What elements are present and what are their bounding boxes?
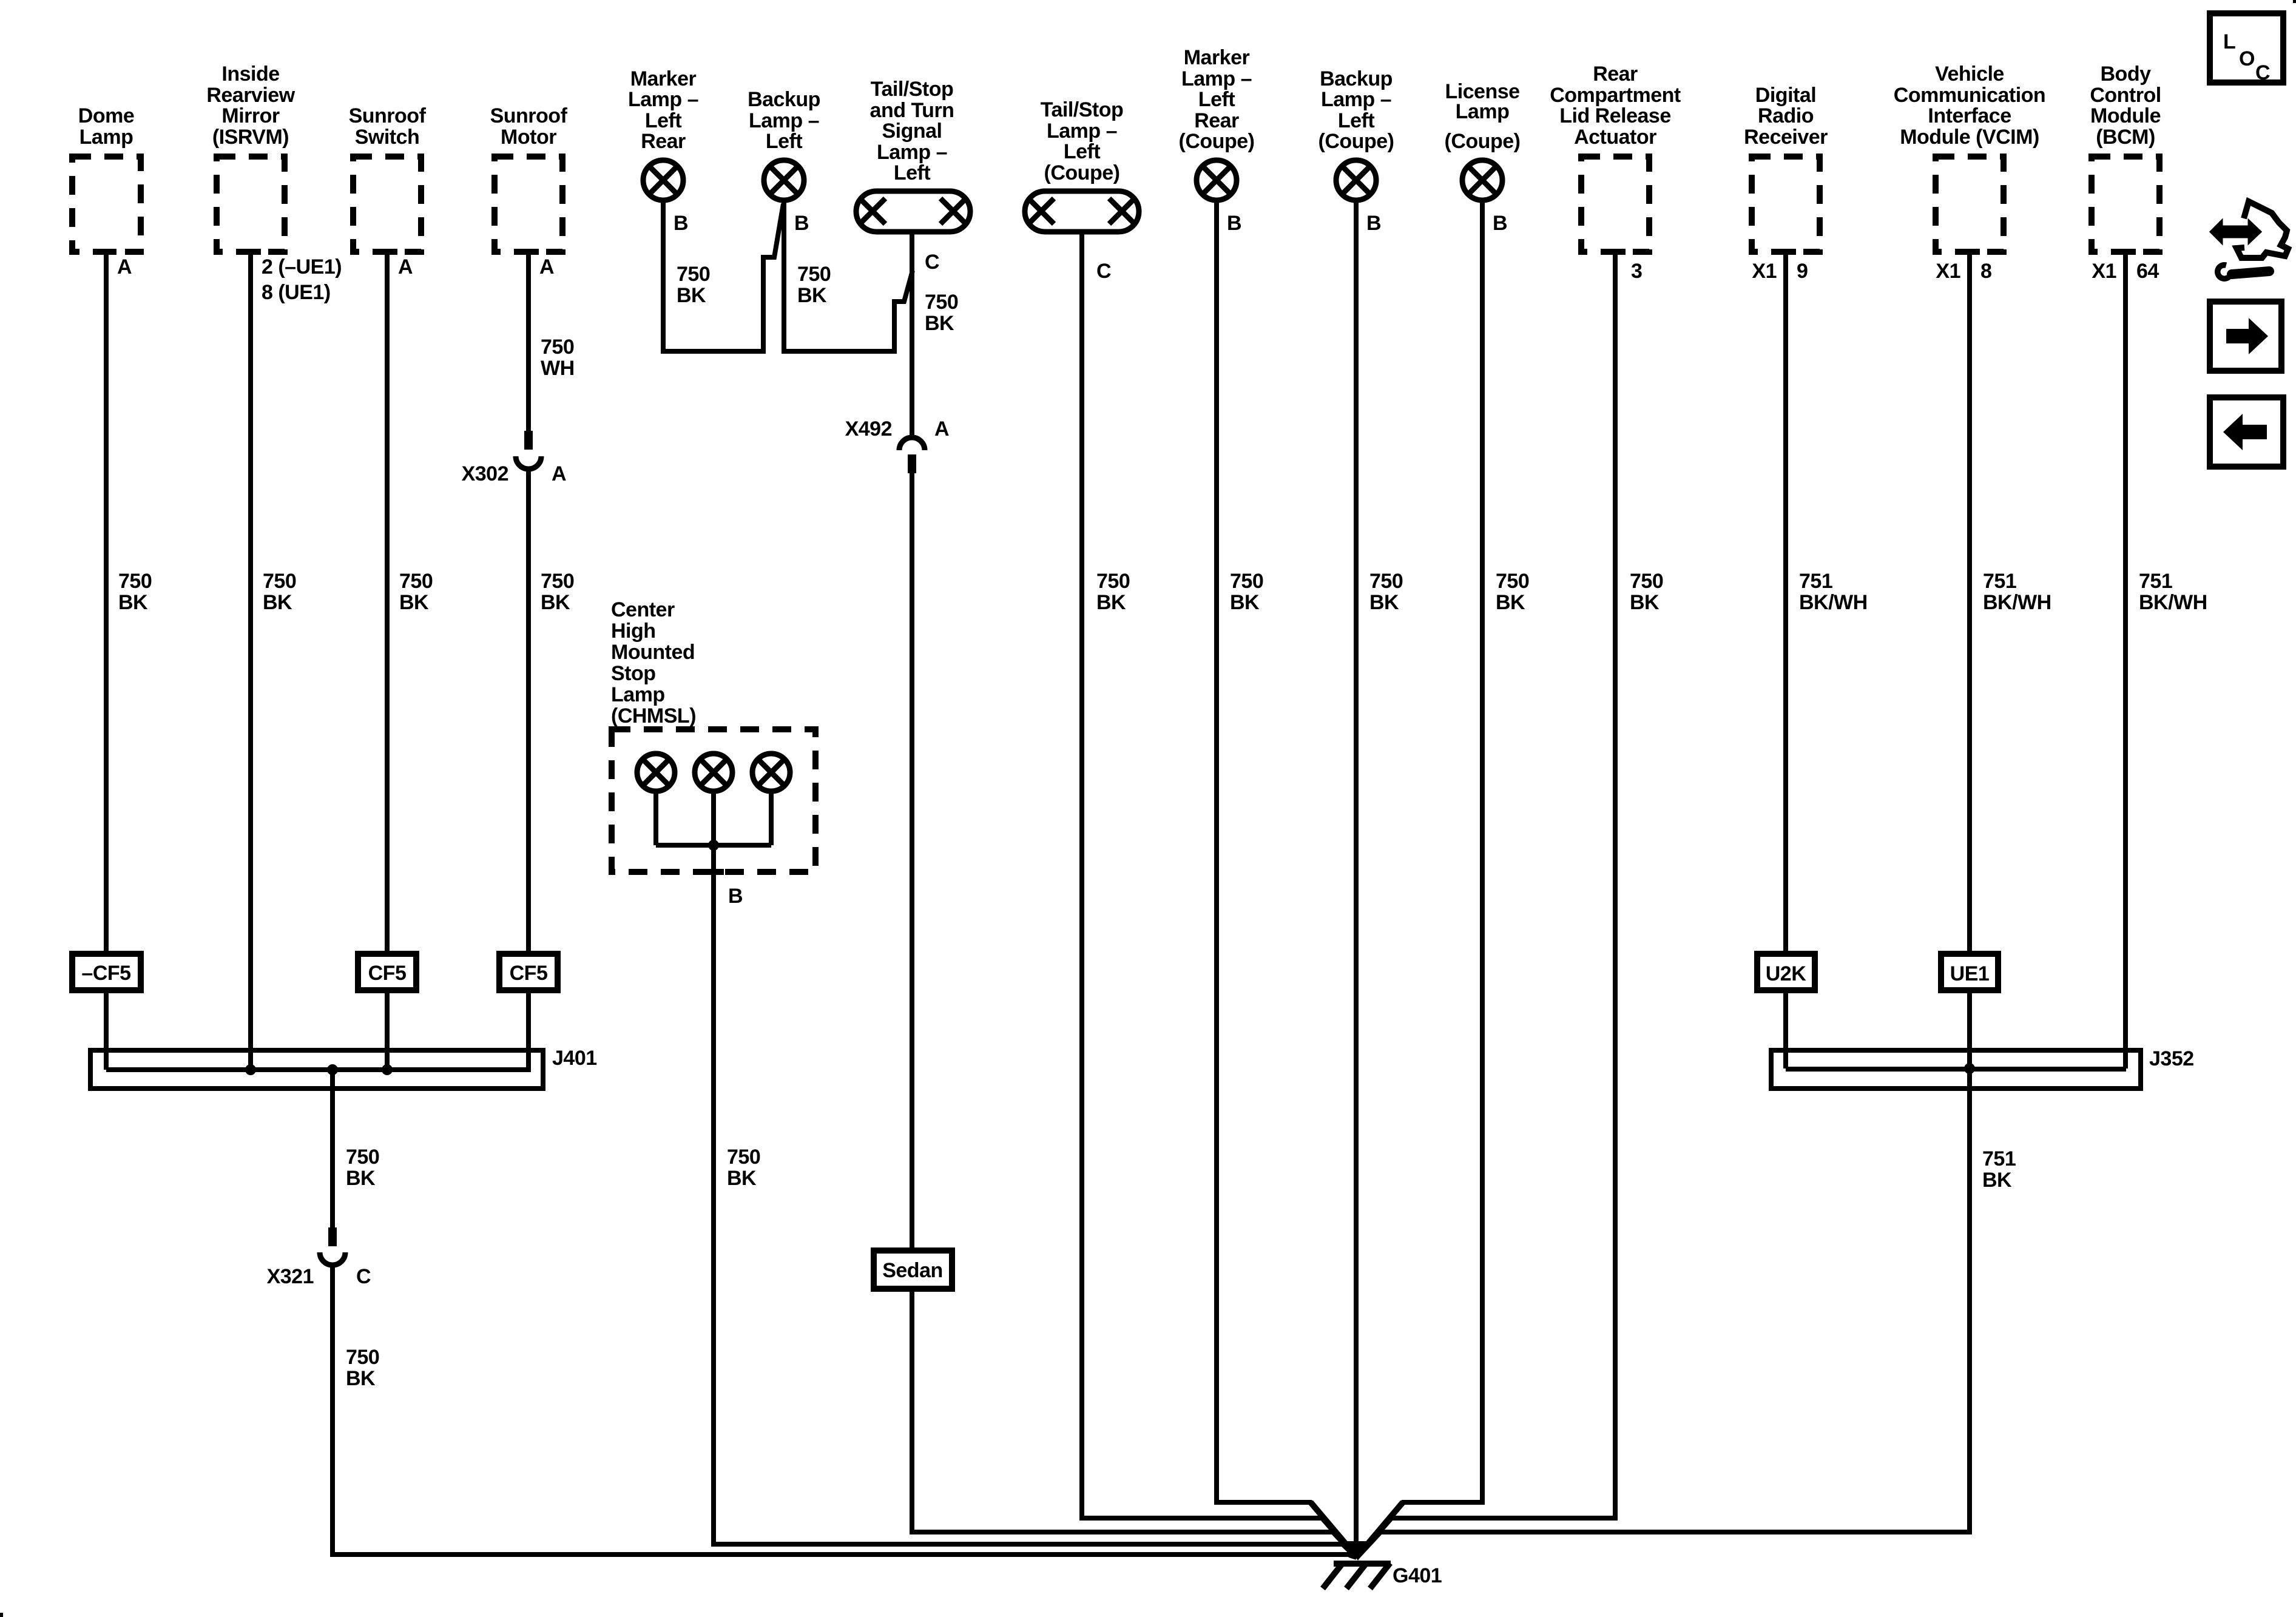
svg-text:Sunroof: Sunroof (349, 104, 427, 127)
svg-text:Digital: Digital (1755, 84, 1816, 107)
marker lamp coupe symbol (1197, 160, 1237, 200)
wire label 751 BK J352 output (1982, 1147, 2016, 1192)
wire label 750 BK J401 output (346, 1146, 379, 1190)
svg-text:Left: Left (1064, 140, 1101, 163)
svg-text:BK: BK (727, 1167, 757, 1190)
svg-text:Left: Left (894, 161, 931, 184)
svg-text:Lamp: Lamp (611, 683, 665, 706)
svg-text:O: O (2239, 47, 2255, 70)
dome lamp label (78, 104, 134, 149)
connector CF5 motor (499, 954, 558, 990)
svg-text:Vehicle: Vehicle (1935, 62, 2004, 86)
svg-text:B: B (1227, 212, 1241, 235)
sunroof switch label (349, 104, 427, 149)
svg-text:BK: BK (677, 284, 706, 307)
svg-text:A: A (539, 255, 554, 279)
tail/stop and turn signal lamp symbol (856, 191, 970, 232)
svg-text:Body: Body (2101, 62, 2152, 86)
svg-text:BK: BK (925, 312, 954, 335)
svg-text:750: 750 (346, 1346, 379, 1369)
svg-text:750: 750 (346, 1146, 379, 1169)
svg-text:(Coupe): (Coupe) (1319, 130, 1394, 153)
wire X492 to Sedan (910, 473, 914, 1251)
data link connector icon (double arrow, car, wrench) (2210, 201, 2288, 282)
svg-text:Sedan: Sedan (882, 1259, 943, 1282)
svg-text:Marker: Marker (1184, 46, 1250, 69)
svg-text:Mirror: Mirror (221, 104, 280, 127)
svg-text:J401: J401 (552, 1047, 597, 1070)
sunroof motor label (490, 104, 568, 149)
svg-text:750: 750 (541, 570, 574, 593)
wire label 750 BK switch (399, 570, 433, 614)
svg-text:Receiver: Receiver (1744, 126, 1828, 149)
svg-text:750: 750 (399, 570, 433, 593)
svg-text:A: A (117, 255, 132, 279)
wire tail/stop to X492 (910, 232, 914, 437)
marker lamp left rear symbol (643, 160, 683, 200)
wire CHMSL to ground (714, 845, 1357, 1557)
svg-text:2 (–UE1): 2 (–UE1) (262, 255, 342, 279)
svg-text:Lamp –: Lamp – (877, 141, 947, 164)
svg-text:Left: Left (766, 130, 803, 153)
svg-text:750: 750 (727, 1146, 760, 1169)
wire digital radio to J352 (1783, 252, 1788, 1068)
svg-text:BK: BK (346, 1167, 376, 1190)
svg-text:Rear: Rear (1194, 109, 1239, 132)
svg-text:B: B (1493, 212, 1507, 235)
digital radio box (1752, 157, 1820, 252)
svg-text:Left: Left (1198, 88, 1235, 111)
svg-text:Rear: Rear (1593, 62, 1638, 86)
svg-text:(Coupe): (Coupe) (1179, 130, 1255, 153)
svg-text:64: 64 (2136, 260, 2159, 283)
svg-text:X492: X492 (845, 417, 892, 441)
dome lamp box (72, 157, 141, 252)
svg-text:751: 751 (2139, 570, 2172, 593)
marker lamp coupe label (1179, 46, 1255, 153)
wire dome lamp to J401 (104, 252, 109, 1070)
svg-text:Lamp –: Lamp – (1321, 88, 1391, 111)
svg-text:750: 750 (1096, 570, 1130, 593)
svg-text:BK: BK (1982, 1169, 2012, 1192)
backup lamp coupe label (1319, 67, 1394, 153)
svg-text:Left: Left (645, 109, 682, 132)
svg-text:U2K: U2K (1766, 962, 1806, 985)
pin X1 9 digital radio (1752, 260, 1808, 283)
wire X302 to J401 (526, 469, 531, 1070)
junction dot ISRVM J401 (245, 1064, 256, 1075)
BCM label (2090, 62, 2161, 149)
svg-text:Interface: Interface (1928, 104, 2011, 127)
svg-text:Lid Release: Lid Release (1559, 104, 1670, 127)
svg-text:Lamp: Lamp (79, 126, 133, 149)
svg-text:(Coupe): (Coupe) (1044, 161, 1120, 184)
svg-text:(CHMSL): (CHMSL) (611, 704, 696, 727)
svg-text:BK/WH: BK/WH (1799, 591, 1868, 614)
svg-text:Actuator: Actuator (1574, 126, 1656, 149)
svg-text:BK: BK (118, 591, 148, 614)
svg-text:BK: BK (1096, 591, 1126, 614)
digital radio receiver label (1744, 84, 1828, 149)
svg-text:750: 750 (1496, 570, 1529, 593)
svg-text:(BCM): (BCM) (2096, 126, 2155, 149)
wire label 750 BK marker (677, 263, 710, 307)
svg-text:Lamp: Lamp (1456, 100, 1510, 123)
license lamp label (1445, 80, 1521, 153)
wire sunroof motor to X302 (526, 252, 531, 431)
svg-text:8: 8 (1980, 260, 1991, 283)
junction dot switch J401 (382, 1064, 393, 1075)
tail/stop lamp coupe label (1041, 98, 1124, 184)
svg-text:BK/WH: BK/WH (2139, 591, 2207, 614)
svg-text:and Turn: and Turn (870, 99, 954, 122)
svg-text:L: L (2223, 30, 2235, 53)
svg-text:X1: X1 (2092, 260, 2116, 283)
svg-text:Left: Left (1338, 109, 1375, 132)
backup lamp coupe symbol (1336, 160, 1376, 200)
svg-text:X1: X1 (1936, 260, 1960, 283)
splice X492 (899, 437, 925, 473)
box exit dashes (96, 252, 2136, 872)
wire label 750 BK dome (118, 570, 152, 614)
svg-text:750: 750 (797, 263, 831, 286)
svg-text:3: 3 (1631, 260, 1642, 283)
svg-text:Backup: Backup (1320, 67, 1393, 90)
CHMSL lamp 1 (637, 754, 675, 791)
rear compartment actuator box (1581, 157, 1649, 252)
svg-text:BK: BK (399, 591, 429, 614)
junction dot output J401 (327, 1064, 338, 1075)
wire label 750 WH (541, 336, 575, 380)
UE1 connector box (1941, 954, 1998, 990)
connector CF5 switch (358, 954, 416, 990)
backup lamp left label (748, 88, 820, 153)
svg-text:WH: WH (541, 357, 575, 380)
svg-text:751: 751 (1982, 1147, 2016, 1170)
svg-text:750: 750 (925, 291, 958, 314)
wire label 750 BK X321 lower (346, 1346, 379, 1390)
wire label 751 BK/WH radio (1799, 570, 1868, 614)
svg-text:A: A (934, 417, 949, 441)
back arrow box (2210, 397, 2283, 467)
wire Sedan to ground (912, 1289, 1357, 1557)
svg-text:Lamp –: Lamp – (628, 88, 698, 111)
wire VCIM through J352 to ground (1357, 252, 1970, 1557)
wire license lamp to ground (1357, 200, 1482, 1557)
svg-text:750: 750 (1369, 570, 1403, 593)
forward arrow box (2210, 302, 2281, 371)
wire label 751 BK/WH VCIM (1983, 570, 2051, 614)
CHMSL junction dot (708, 840, 719, 851)
svg-text:B: B (794, 212, 809, 235)
svg-text:Inside: Inside (221, 62, 279, 86)
svg-text:–CF5: –CF5 (81, 962, 130, 985)
svg-text:(ISRVM): (ISRVM) (212, 126, 289, 149)
connector -CF5 (72, 954, 141, 990)
page artifact dot top-right (2293, 0, 2296, 3)
junction block J352 (1771, 1050, 2141, 1089)
svg-text:B: B (674, 212, 688, 235)
svg-text:Compartment: Compartment (1550, 84, 1681, 107)
svg-text:Backup: Backup (748, 88, 820, 111)
wire label 750 BK marker coupe (1230, 570, 1263, 614)
wire label 751 BK/WH BCM (2139, 570, 2207, 614)
wire label 750 BK CHMSL (727, 1146, 760, 1190)
svg-text:Communication: Communication (1894, 84, 2045, 107)
svg-text:Center: Center (611, 598, 675, 621)
svg-text:BK: BK (797, 284, 827, 307)
tail/stop lamp coupe symbol (1025, 191, 1139, 232)
wire label 750 BK ISRVM (263, 570, 296, 614)
svg-text:BK: BK (1630, 591, 1660, 614)
marker lamp left rear label (628, 67, 698, 153)
Sedan connector box (874, 1251, 952, 1289)
svg-text:750: 750 (263, 570, 296, 593)
svg-text:CF5: CF5 (368, 962, 407, 985)
svg-text:X1: X1 (1752, 260, 1777, 283)
svg-text:Module (VCIM): Module (VCIM) (1900, 126, 2039, 149)
svg-text:750: 750 (1630, 570, 1663, 593)
svg-text:8 (UE1): 8 (UE1) (262, 281, 331, 304)
svg-text:X321: X321 (267, 1265, 314, 1288)
svg-text:C: C (1096, 260, 1111, 283)
svg-text:BK: BK (1369, 591, 1399, 614)
splice X302 (516, 431, 541, 469)
svg-text:BK/WH: BK/WH (1983, 591, 2051, 614)
svg-text:750: 750 (118, 570, 152, 593)
svg-text:751: 751 (1983, 570, 2016, 593)
svg-text:High: High (611, 619, 656, 643)
ISRVM box (217, 157, 285, 252)
svg-text:750: 750 (677, 263, 710, 286)
wire ISRVM to J401 (248, 252, 253, 1070)
wire X321 to ground (333, 1266, 1357, 1557)
wire marker lamp to backup junction (663, 200, 783, 351)
LOC reference box (2210, 13, 2283, 84)
svg-text:Lamp –: Lamp – (749, 109, 819, 132)
wire label 750 BK tail/stop (925, 291, 958, 335)
ground G401 (1323, 1563, 1391, 1588)
wire label 750 BK license (1496, 570, 1529, 614)
svg-text:UE1: UE1 (1950, 962, 1990, 985)
svg-text:CF5: CF5 (510, 962, 548, 985)
junction block J401 (90, 1050, 543, 1089)
svg-text:750: 750 (1230, 570, 1263, 593)
svg-text:C: C (925, 251, 939, 274)
svg-text:X302: X302 (462, 462, 508, 485)
wire sunroof switch to J401 (385, 252, 390, 1070)
svg-text:C: C (356, 1265, 371, 1288)
VCIM label (1894, 62, 2045, 149)
svg-text:Dome: Dome (78, 104, 134, 127)
svg-text:G401: G401 (1393, 1564, 1442, 1587)
backup lamp left symbol (764, 160, 804, 200)
wire marker coupe to ground (1217, 200, 1357, 1557)
wire label 750 BK actuator (1630, 570, 1663, 614)
CHMSL box (612, 729, 815, 872)
svg-text:Tail/Stop: Tail/Stop (1041, 98, 1124, 121)
svg-text:Signal: Signal (882, 120, 942, 143)
svg-text:BK: BK (541, 591, 570, 614)
wire label 750 BK backup (797, 263, 831, 307)
CHMSL internal wires (656, 791, 771, 845)
wire BCM to J352 (2123, 252, 2128, 1068)
svg-text:Rear: Rear (641, 130, 686, 153)
wire tail/stop coupe to ground (1082, 232, 1357, 1557)
svg-text:Stop: Stop (611, 662, 656, 685)
svg-text:A: A (398, 255, 413, 279)
BCM box (2092, 157, 2159, 252)
svg-text:Sunroof: Sunroof (490, 104, 568, 127)
wire J401 output to X321 (330, 1070, 335, 1227)
CHMSL label (611, 598, 696, 727)
ISRVM label (206, 62, 295, 149)
wire backup coupe to ground (1354, 200, 1359, 1553)
svg-text:Tail/Stop: Tail/Stop (871, 78, 954, 101)
CHMSL lamp 3 (752, 754, 790, 791)
sunroof motor box (495, 157, 562, 252)
pin X1 8 VCIM (1936, 260, 1991, 283)
svg-text:Radio: Radio (1758, 104, 1814, 127)
svg-text:Lamp –: Lamp – (1047, 120, 1117, 143)
svg-text:(Coupe): (Coupe) (1445, 130, 1521, 153)
svg-text:BK: BK (1230, 591, 1260, 614)
pin 2 (-UE1) / 8 (UE1) (262, 255, 342, 304)
svg-text:J352: J352 (2149, 1047, 2194, 1070)
page artifact dot bottom-left (0, 1613, 3, 1617)
splice X321 (320, 1227, 345, 1265)
svg-text:Control: Control (2090, 84, 2161, 107)
svg-text:Mounted: Mounted (611, 641, 695, 664)
license lamp symbol (1462, 160, 1502, 200)
pin X1 64 BCM (2092, 260, 2159, 283)
U2K connector box (1757, 954, 1815, 990)
svg-text:C: C (2255, 61, 2270, 84)
svg-text:9: 9 (1797, 260, 1808, 283)
svg-text:Rearview: Rearview (206, 84, 295, 107)
svg-text:Lamp –: Lamp – (1181, 67, 1252, 90)
CHMSL lamp 2 (695, 754, 732, 791)
wire actuator to ground (1357, 252, 1615, 1557)
ground hub fan (1311, 1502, 1403, 1557)
wire backup lamp to tail/stop wire (784, 200, 913, 351)
svg-text:A: A (552, 462, 566, 485)
svg-text:Motor: Motor (501, 126, 556, 149)
VCIM box (1936, 157, 2004, 252)
wire label 750 BK tail/stop coupe (1096, 570, 1130, 614)
svg-text:BK: BK (263, 591, 292, 614)
svg-text:B: B (728, 885, 743, 908)
junction dot VCIM J352 (1964, 1063, 1975, 1074)
rear compartment lid release actuator label (1550, 62, 1681, 149)
wire label 750 BK motor (541, 570, 574, 614)
svg-text:BK: BK (346, 1367, 376, 1390)
svg-text:BK: BK (1496, 591, 1525, 614)
svg-text:751: 751 (1799, 570, 1832, 593)
tail/stop and turn signal lamp label (870, 78, 954, 184)
svg-text:B: B (1366, 212, 1381, 235)
svg-text:Marker: Marker (630, 67, 697, 90)
wire label 750 BK backup coupe (1369, 570, 1403, 614)
sunroof switch box (353, 157, 421, 252)
svg-text:750: 750 (541, 336, 574, 359)
svg-text:Switch: Switch (355, 126, 420, 149)
svg-text:Module: Module (2090, 104, 2161, 127)
